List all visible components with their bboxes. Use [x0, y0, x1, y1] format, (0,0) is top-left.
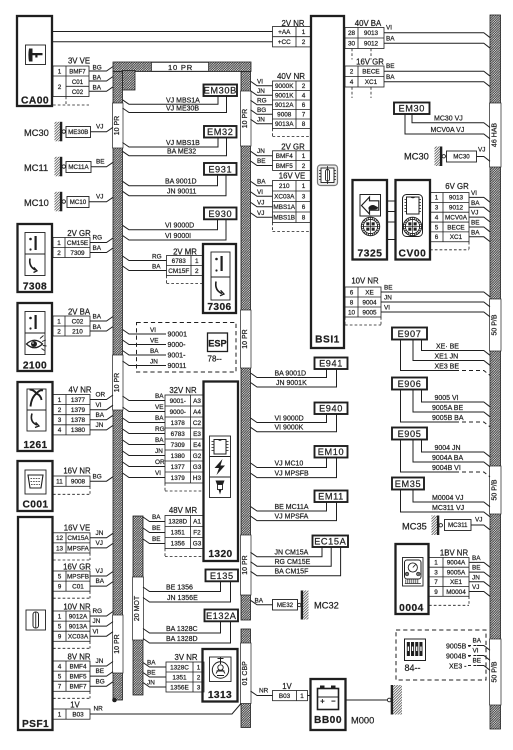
telematics unit 7325 — [353, 180, 388, 260]
svg-text:BA: BA — [471, 229, 480, 236]
svg-text:2100: 2100 — [23, 361, 47, 372]
svg-text:9012: 9012 — [449, 205, 464, 212]
svg-text:BE: BE — [471, 220, 480, 227]
svg-text:MC311: MC311 — [448, 522, 468, 529]
CD changer CV00 — [396, 180, 431, 260]
svg-text:VI: VI — [257, 78, 263, 85]
bus 20 MOT vertical bar — [133, 516, 143, 695]
svg-text:VI: VI — [155, 470, 161, 477]
svg-text:48V MR: 48V MR — [169, 506, 198, 515]
svg-text:ME32: ME32 — [277, 602, 294, 609]
ESP control unit option box 78 — [137, 323, 237, 373]
svg-text:M0004 VJ: M0004 VJ — [432, 495, 464, 502]
svg-text:01 CBP: 01 CBP — [242, 661, 249, 685]
svg-text:MC30: MC30 — [453, 154, 470, 161]
svg-text:6: 6 — [435, 234, 439, 241]
svg-text:10 PR: 10 PR — [242, 555, 249, 574]
svg-text:BG: BG — [96, 678, 105, 685]
svg-text:9005 VI: 9005 VI — [435, 395, 459, 402]
svg-text:7309: 7309 — [70, 250, 85, 257]
svg-text:BA: BA — [147, 660, 156, 667]
svg-text:E930: E930 — [208, 209, 232, 219]
svg-text:MC30: MC30 — [404, 151, 429, 161]
relay EM30B — [204, 85, 238, 97]
svg-text:1313: 1313 — [208, 690, 232, 701]
svg-text:BE: BE — [473, 657, 482, 664]
svg-text:10 PR: 10 PR — [114, 116, 121, 135]
svg-text:XE1: XE1 — [450, 579, 463, 586]
svg-text:MPSFB: MPSFB — [67, 573, 89, 580]
svg-text:RG: RG — [257, 97, 267, 104]
svg-text:10V NR: 10V NR — [351, 276, 379, 285]
svg-text:BA 1328C: BA 1328C — [166, 626, 198, 633]
svg-text:BE: BE — [472, 565, 481, 572]
relay EM10 — [315, 446, 348, 458]
svg-text:BE: BE — [152, 536, 161, 543]
svg-text:JN: JN — [257, 148, 265, 155]
svg-text:9008: 9008 — [277, 112, 292, 119]
svg-text:3V VE: 3V VE — [68, 57, 90, 66]
relay E940 — [315, 403, 348, 415]
svg-text:JN 9001K: JN 9001K — [276, 380, 307, 387]
svg-text:9004A BA: 9004A BA — [432, 455, 463, 462]
svg-text:VJ: VJ — [96, 124, 103, 131]
svg-text:JN: JN — [96, 530, 104, 537]
svg-text:G3: G3 — [193, 540, 202, 547]
svg-text:7308: 7308 — [23, 282, 47, 293]
wires 7325 to CV00 — [387, 200, 396, 202]
svg-text:1: 1 — [58, 613, 62, 620]
svg-text:RG CM15E: RG CM15E — [275, 559, 311, 566]
svg-text:BE: BE — [257, 158, 266, 165]
svg-text:1: 1 — [58, 711, 62, 718]
svg-text:M0004: M0004 — [446, 589, 466, 596]
svg-text:1: 1 — [58, 397, 62, 404]
engine ECU 1320 — [204, 382, 239, 562]
svg-text:1: 1 — [302, 153, 306, 160]
svg-text:2V GR: 2V GR — [281, 142, 305, 151]
svg-text:+AA: +AA — [278, 29, 291, 36]
svg-text:VI 9000I: VI 9000I — [165, 233, 191, 240]
svg-text:MC10: MC10 — [70, 199, 87, 206]
ignition switch CA00 — [17, 16, 52, 106]
svg-text:BSI1: BSI1 — [315, 335, 340, 346]
svg-text:9: 9 — [434, 589, 438, 596]
svg-text:BB00: BB00 — [314, 715, 342, 726]
svg-text:BA: BA — [93, 245, 102, 252]
svg-text:EM10: EM10 — [318, 447, 344, 457]
svg-text:6: 6 — [302, 204, 306, 211]
svg-text:1356E: 1356E — [170, 684, 188, 691]
svg-text:78--: 78-- — [208, 355, 223, 364]
svg-text:28: 28 — [348, 30, 356, 37]
svg-text:C2: C2 — [193, 420, 202, 427]
svg-text:BMF4: BMF4 — [276, 153, 293, 160]
ground M000 — [346, 699, 388, 701]
svg-text:XE3 BE: XE3 BE — [435, 363, 460, 370]
svg-text:BA: BA — [155, 393, 164, 400]
svg-text:BA: BA — [150, 348, 159, 355]
svg-text:JN: JN — [384, 295, 392, 302]
svg-text:MCV0A VJ: MCV0A VJ — [431, 127, 465, 134]
svg-text:VI: VI — [150, 327, 156, 334]
svg-text:PSF1: PSF1 — [22, 719, 49, 730]
svg-text:EM30: EM30 — [399, 104, 425, 114]
svg-text:BA: BA — [155, 415, 164, 422]
svg-text:6V GR: 6V GR — [445, 182, 469, 191]
switch 7308 — [18, 224, 53, 292]
svg-text:E941: E941 — [319, 359, 343, 369]
svg-text:3: 3 — [434, 569, 438, 576]
svg-text:1377: 1377 — [171, 464, 186, 471]
svg-text:MC30 VJ: MC30 VJ — [434, 116, 463, 123]
svg-text:2: 2 — [57, 328, 61, 335]
svg-text:2: 2 — [58, 407, 62, 414]
svg-text:9008: 9008 — [71, 478, 86, 485]
svg-text:1328D: 1328D — [168, 518, 187, 525]
svg-text:VJ: VJ — [471, 210, 478, 217]
svg-text:C01: C01 — [72, 583, 84, 590]
svg-text:BA: BA — [257, 178, 266, 185]
svg-text:E132A: E132A — [206, 611, 237, 621]
svg-text:9004B VI: 9004B VI — [432, 465, 461, 472]
svg-text:40V BA: 40V BA — [355, 19, 382, 28]
svg-text:1: 1 — [195, 258, 199, 265]
svg-text:BA: BA — [473, 637, 482, 644]
svg-text:E905: E905 — [398, 429, 422, 439]
svg-text:G3: G3 — [193, 464, 202, 471]
svg-text:E3: E3 — [193, 431, 201, 438]
svg-text:5: 5 — [435, 224, 439, 231]
svg-text:10 PR: 10 PR — [114, 634, 121, 653]
svg-text:XC1: XC1 — [365, 79, 378, 86]
svg-text:2: 2 — [350, 69, 354, 76]
svg-text:1: 1 — [302, 183, 306, 190]
svg-text:EM35: EM35 — [395, 479, 421, 489]
svg-text:BA: BA — [93, 85, 102, 92]
svg-text:XE· BE: XE· BE — [436, 343, 459, 350]
svg-text:5: 5 — [58, 673, 62, 680]
svg-text:VI: VI — [93, 628, 99, 635]
option connector 84 — [396, 630, 486, 680]
svg-text:9013A: 9013A — [69, 623, 88, 630]
svg-text:VJ: VJ — [257, 210, 264, 217]
body control unit BSI1 — [311, 16, 344, 348]
svg-text:1V: 1V — [282, 682, 292, 691]
relay EM30 — [394, 103, 430, 115]
wire +AA from CA00 to BSI1 — [52, 31, 272, 33]
svg-text:2: 2 — [195, 268, 199, 275]
svg-text:50 P/B: 50 P/B — [491, 661, 498, 682]
svg-text:1351: 1351 — [171, 529, 186, 536]
svg-text:BA: BA — [386, 35, 395, 42]
svg-text:VJ MPSFA: VJ MPSFA — [275, 513, 309, 520]
svg-text:E907: E907 — [398, 329, 422, 339]
svg-text:7306: 7306 — [207, 302, 231, 313]
svg-text:B03: B03 — [279, 693, 291, 700]
svg-text:9005A BE: 9005A BE — [432, 405, 463, 412]
svg-text:A4: A4 — [193, 409, 201, 416]
svg-text:9004: 9004 — [362, 299, 377, 306]
svg-text:BA: BA — [155, 437, 164, 444]
relay EM32 — [204, 126, 237, 138]
svg-text:3: 3 — [435, 205, 439, 212]
svg-text:VJ MPSFB: VJ MPSFB — [275, 470, 310, 477]
svg-text:MC30: MC30 — [24, 128, 49, 138]
svg-text:C02: C02 — [72, 318, 84, 325]
relay EM11 — [315, 491, 348, 503]
svg-text:BE: BE — [96, 159, 105, 166]
svg-text:13: 13 — [56, 545, 64, 552]
svg-text:7325: 7325 — [357, 249, 382, 260]
svg-text:BA 1328D: BA 1328D — [166, 636, 198, 643]
svg-text:9004 JN: 9004 JN — [435, 445, 461, 452]
svg-text:JN: JN — [93, 618, 101, 625]
svg-text:BA CM15F: BA CM15F — [275, 569, 309, 576]
svg-text:RG: RG — [93, 608, 103, 615]
svg-text:10V NR: 10V NR — [63, 603, 91, 612]
bus 10 PR right vertical bar — [241, 72, 251, 621]
svg-text:1: 1 — [197, 664, 201, 671]
bus 10 PR top horizontal bar — [113, 62, 251, 72]
svg-text:1: 1 — [300, 693, 304, 700]
svg-text:BA: BA — [93, 75, 102, 82]
pump 1313 — [203, 649, 238, 702]
svg-text:VI: VI — [386, 25, 392, 32]
svg-text:EM11: EM11 — [318, 492, 344, 502]
svg-text:BE: BE — [96, 668, 105, 675]
7325 connector face — [361, 217, 379, 235]
bus 46 HAB / 50 P/B right edge bar — [490, 15, 501, 729]
svg-text:1261: 1261 — [23, 440, 47, 451]
svg-text:OR: OR — [96, 392, 106, 399]
svg-text:VE: VE — [150, 337, 159, 344]
svg-text:210: 210 — [72, 328, 83, 335]
ground MC32 — [273, 600, 298, 611]
svg-text:VJ ME30B: VJ ME30B — [166, 106, 199, 113]
svg-text:1328C: 1328C — [170, 664, 189, 671]
svg-text:BE: BE — [152, 525, 161, 532]
svg-text:6: 6 — [302, 102, 306, 109]
svg-text:1320: 1320 — [208, 549, 232, 560]
svg-text:VJ MBS1B: VJ MBS1B — [166, 140, 200, 147]
svg-text:BMF7: BMF7 — [69, 684, 86, 691]
svg-text:CV00: CV00 — [399, 249, 427, 260]
relay E907 — [392, 328, 427, 340]
svg-text:MBS1B: MBS1B — [273, 215, 295, 222]
svg-text:1378: 1378 — [71, 417, 86, 424]
svg-text:MBS1A: MBS1A — [273, 204, 295, 211]
svg-text:4: 4 — [302, 93, 306, 100]
svg-text:9: 9 — [58, 634, 62, 641]
svg-text:7: 7 — [434, 579, 438, 586]
svg-text:MPSFA: MPSFA — [67, 545, 89, 552]
svg-text:20 MOT: 20 MOT — [134, 595, 141, 621]
svg-text:BA 9001D: BA 9001D — [275, 370, 307, 377]
battery BB00 — [311, 679, 346, 730]
svg-text:E135: E135 — [210, 571, 234, 581]
svg-text:E906: E906 — [398, 379, 422, 389]
svg-text:BE: BE — [147, 670, 156, 677]
svg-text:46 HAB: 46 HAB — [491, 123, 498, 147]
svg-text:BMF7: BMF7 — [69, 69, 86, 76]
svg-text:7309: 7309 — [171, 442, 186, 449]
svg-text:CA00: CA00 — [21, 96, 49, 107]
svg-text:7: 7 — [58, 684, 62, 691]
svg-text:+CC: +CC — [278, 39, 291, 46]
svg-text:BA: BA — [96, 412, 105, 419]
svg-text:XE3 -: XE3 - — [449, 664, 467, 671]
svg-text:BA: BA — [472, 555, 481, 562]
svg-text:10 PR: 10 PR — [114, 373, 121, 392]
svg-text:7: 7 — [302, 112, 306, 119]
relay EC15A — [313, 536, 349, 548]
svg-text:1378: 1378 — [171, 420, 186, 427]
svg-text:1356: 1356 — [171, 540, 186, 547]
svg-text:8: 8 — [302, 215, 306, 222]
svg-text:11: 11 — [56, 478, 63, 485]
svg-text:JN: JN — [257, 116, 265, 123]
svg-text:1BV NR: 1BV NR — [440, 548, 469, 557]
svg-text:RG: RG — [155, 426, 165, 433]
svg-text:XE1 JN: XE1 JN — [435, 353, 459, 360]
svg-text:1: 1 — [434, 560, 438, 567]
svg-text:VJ: VJ — [96, 194, 103, 201]
svg-text:MC11A: MC11A — [68, 164, 89, 171]
svg-text:BA ME32: BA ME32 — [167, 149, 196, 156]
svg-text:E940: E940 — [319, 404, 343, 414]
svg-text:VJ: VJ — [257, 199, 264, 206]
svg-text:16V NR: 16V NR — [63, 467, 91, 476]
svg-text:EM32: EM32 — [207, 127, 233, 137]
svg-text:3V NR: 3V NR — [175, 653, 198, 662]
svg-text:1380: 1380 — [71, 427, 86, 434]
svg-text:JN: JN — [472, 574, 480, 581]
switch 7306 — [203, 244, 236, 313]
svg-text:9005B -: 9005B - — [446, 644, 471, 651]
svg-text:90001: 90001 — [168, 332, 188, 339]
svg-text:50 P/B: 50 P/B — [491, 479, 498, 500]
bus 10 PR left corner elbow — [123, 71, 136, 91]
svg-text:NR: NR — [94, 706, 104, 713]
svg-text:C001: C001 — [23, 500, 49, 511]
svg-text:BA: BA — [255, 597, 264, 604]
svg-text:9004B -: 9004B - — [446, 654, 471, 661]
sensor 1261 — [18, 382, 53, 451]
svg-text:10 PR: 10 PR — [242, 329, 249, 348]
svg-text:VJ MC10: VJ MC10 — [275, 460, 304, 467]
relay E135 — [206, 570, 239, 582]
svg-text:BA: BA — [152, 514, 161, 521]
svg-text:VI 9000D: VI 9000D — [275, 415, 304, 422]
relay E132A — [205, 610, 239, 622]
svg-text:CM15A: CM15A — [67, 535, 89, 542]
svg-text:EM30B: EM30B — [204, 86, 237, 96]
svg-text:XC03A: XC03A — [68, 634, 89, 641]
svg-text:9000-: 9000- — [170, 409, 186, 416]
svg-text:9012A: 9012A — [69, 613, 88, 620]
relay E930 — [204, 208, 237, 220]
svg-text:VJ MBS1A: VJ MBS1A — [166, 97, 200, 104]
diagnostic socket C001 — [18, 461, 53, 511]
svg-text:ME30B: ME30B — [68, 129, 88, 136]
svg-text:4: 4 — [58, 663, 62, 670]
instrument cluster 0004 — [396, 544, 429, 614]
svg-text:9005B BA: 9005B BA — [432, 415, 464, 422]
svg-text:2V MR: 2V MR — [173, 247, 197, 256]
svg-text:H3: H3 — [193, 475, 202, 482]
svg-text:BA: BA — [152, 263, 161, 270]
svg-text:NR: NR — [259, 687, 269, 694]
relay E931 — [204, 163, 237, 175]
svg-text:VI 9000D: VI 9000D — [165, 223, 194, 230]
svg-text:EC15A: EC15A — [314, 537, 346, 547]
svg-text:VI: VI — [384, 305, 390, 312]
svg-text:VJ: VJ — [478, 147, 485, 154]
relay E941 — [315, 358, 348, 370]
svg-text:A3: A3 — [193, 398, 201, 405]
svg-text:VI 9000K: VI 9000K — [275, 425, 304, 432]
svg-text:16V VE: 16V VE — [279, 172, 305, 181]
svg-text:16V GR: 16V GR — [356, 57, 384, 66]
svg-text:JN: JN — [96, 422, 104, 429]
svg-text:1: 1 — [435, 195, 439, 202]
svg-text:G2: G2 — [193, 453, 202, 460]
svg-text:A1: A1 — [193, 518, 201, 525]
relay E906 — [392, 378, 427, 390]
svg-text:9013: 9013 — [364, 30, 379, 37]
svg-text:BA: BA — [96, 578, 105, 585]
svg-text:10 PR: 10 PR — [168, 63, 193, 72]
svg-text:F2: F2 — [193, 529, 201, 536]
svg-text:4: 4 — [350, 79, 354, 86]
svg-text:8V NR: 8V NR — [68, 653, 91, 662]
svg-text:BE 1356: BE 1356 — [166, 584, 193, 591]
svg-text:BMF4: BMF4 — [69, 663, 86, 670]
svg-text:BA: BA — [386, 74, 395, 81]
svg-text:16V VE: 16V VE — [64, 524, 90, 533]
svg-text:OR: OR — [155, 459, 165, 466]
svg-text:BE: BE — [384, 285, 393, 292]
svg-text:12: 12 — [56, 535, 64, 542]
svg-text:4V NR: 4V NR — [69, 386, 92, 395]
svg-text:9004A: 9004A — [447, 560, 466, 567]
svg-text:JN: JN — [96, 658, 104, 665]
bus 01 CBP vertical bar — [241, 629, 251, 728]
svg-text:C02: C02 — [72, 89, 84, 96]
svg-text:VJ: VJ — [472, 584, 479, 591]
svg-text:1379: 1379 — [171, 475, 186, 482]
bus 10 PR left vertical bar — [113, 72, 123, 701]
svg-text:VE: VE — [155, 404, 164, 411]
svg-text:1: 1 — [58, 69, 62, 76]
svg-text:50 P/B: 50 P/B — [491, 314, 498, 335]
svg-text:BA: BA — [471, 200, 480, 207]
svg-text:3: 3 — [197, 684, 201, 691]
svg-text:9013A: 9013A — [275, 121, 294, 128]
svg-text:0004: 0004 — [399, 603, 424, 614]
svg-text:9001-: 9001- — [170, 398, 186, 405]
svg-text:2: 2 — [58, 84, 62, 91]
svg-text:2: 2 — [302, 83, 306, 90]
svg-text:JN: JN — [155, 448, 163, 455]
svg-text:+: + — [320, 697, 325, 706]
svg-text:VJ: VJ — [475, 517, 482, 524]
svg-text:MC35: MC35 — [402, 521, 427, 531]
svg-text:CM15E: CM15E — [67, 240, 88, 247]
svg-text:BA: BA — [93, 324, 102, 331]
svg-text:BECE: BECE — [447, 224, 464, 231]
